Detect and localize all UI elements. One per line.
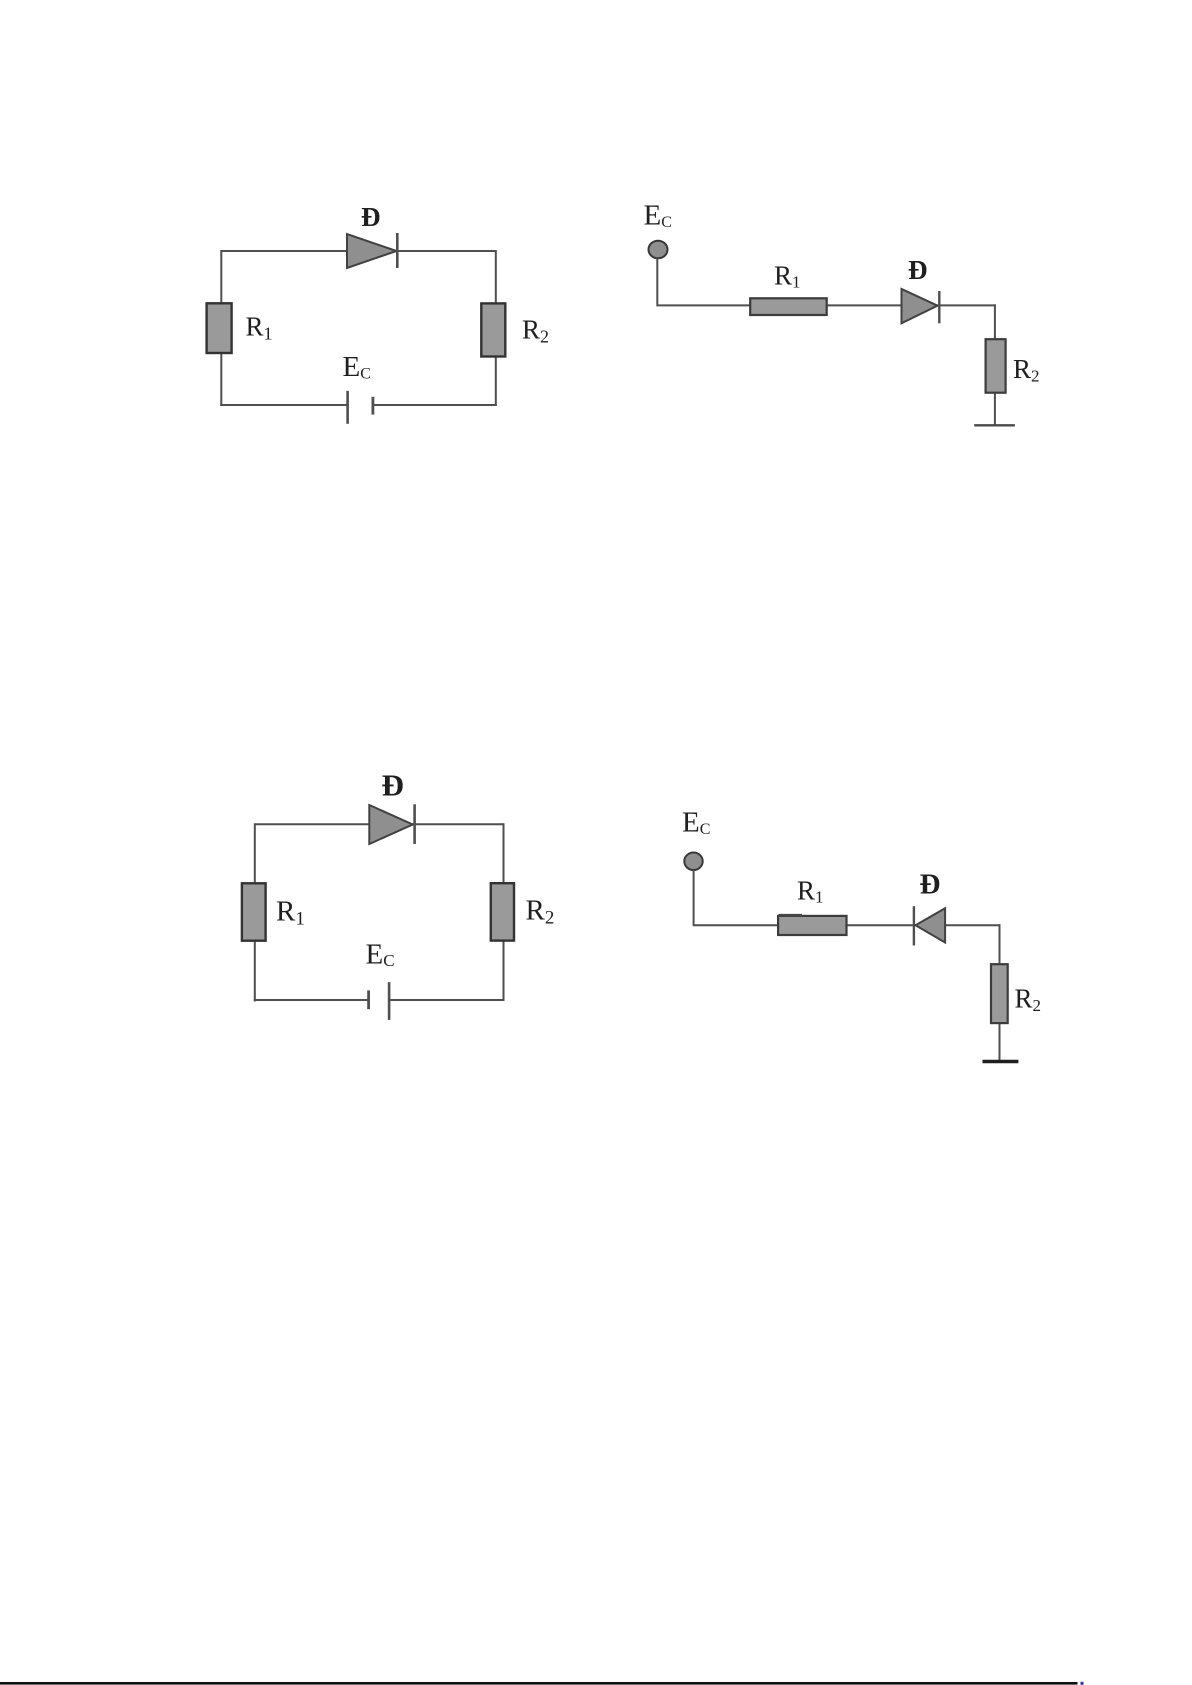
svg-text:R1: R1 [774, 261, 801, 292]
wire right vertical [495, 250, 497, 406]
wire right vertical [503, 823, 505, 1001]
diode D triangle [369, 805, 412, 844]
svg-text:R1: R1 [276, 896, 305, 930]
diode D cathode bar [913, 906, 915, 945]
resistor R1 [242, 883, 266, 940]
footer period dot [1081, 1682, 1084, 1685]
resistor R1 (horizontal) [750, 298, 827, 315]
resistor R2 [991, 964, 1008, 1023]
svg-text:Đ: Đ [361, 202, 381, 232]
wire left vertical [220, 250, 222, 406]
wire bottom-right segment [389, 999, 504, 1001]
wire left vertical [254, 823, 256, 1001]
wire bottom-left segment [254, 999, 369, 1001]
wire right vertical down to ground [994, 304, 996, 425]
resistor R2 [481, 303, 505, 356]
wire top [255, 823, 503, 825]
diode D cathode bar [938, 291, 940, 323]
svg-text:R2: R2 [526, 895, 555, 929]
wire bottom-right segment [373, 404, 497, 406]
svg-text:R2: R2 [1015, 984, 1042, 1016]
svg-text:EC: EC [366, 939, 395, 971]
resistor R1 top-left notch [779, 914, 803, 917]
resistor R1 (horizontal) [778, 916, 846, 935]
svg-text:Đ: Đ [920, 869, 941, 901]
wire right vertical down to ground [999, 924, 1001, 1061]
wire horizontal main [694, 924, 1001, 926]
diode D triangle [902, 289, 938, 323]
ground [983, 1060, 1019, 1063]
node EC terminal dot [649, 241, 668, 259]
svg-text:Đ: Đ [908, 255, 928, 285]
svg-text:R2: R2 [522, 315, 549, 347]
diode D cathode bar [413, 804, 416, 844]
resistor R1 [207, 303, 232, 353]
svg-text:R2: R2 [1013, 354, 1040, 386]
svg-text:EC: EC [343, 351, 371, 383]
ground [974, 424, 1015, 426]
svg-text:R1: R1 [797, 876, 824, 907]
battery EC long plate [346, 391, 349, 424]
svg-text:R1: R1 [246, 312, 273, 344]
wire horizontal main [657, 304, 996, 306]
wire bottom-left segment [220, 404, 348, 406]
diode D triangle (points left) [916, 908, 946, 942]
diode D1 cathode bar [396, 233, 399, 268]
node EC terminal dot [684, 853, 702, 871]
svg-text:EC: EC [644, 200, 672, 232]
wire top (node A to node B) [222, 250, 497, 252]
svg-text:EC: EC [682, 807, 710, 839]
diode D1 triangle [347, 234, 397, 268]
battery EC short plate [367, 990, 370, 1009]
footer rule [0, 1682, 1078, 1685]
wire from EC dot down [656, 258, 658, 306]
battery EC long plate [388, 982, 391, 1020]
battery EC short plate [371, 397, 374, 415]
resistor R2 [986, 339, 1006, 393]
svg-text:Đ: Đ [382, 768, 404, 803]
wire from EC dot down [693, 870, 695, 926]
resistor R2 [491, 883, 514, 940]
